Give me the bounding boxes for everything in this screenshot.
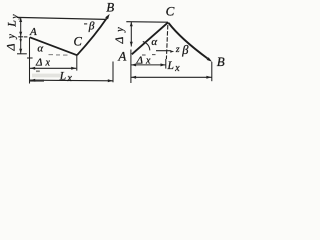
- arrow up to top tick: [19, 18, 22, 22]
- small right arrow before z mark: [170, 50, 174, 53]
- svg-text:Lx: Lx: [167, 60, 181, 74]
- Δx right arrow: [71, 67, 76, 70]
- vertical line below C: [166, 25, 167, 59]
- arrowhead at B: [105, 14, 110, 20]
- horizontal line through C vertical: [156, 50, 171, 52]
- Δx left arrow: [30, 67, 35, 70]
- dashed horizontal reference at A: [49, 54, 68, 56]
- Lx right arrow: [108, 79, 113, 82]
- ink blob: [36, 70, 40, 72]
- alpha arc: [143, 42, 150, 51]
- Lx right arrow: [206, 76, 211, 79]
- arrow up at top: [130, 22, 133, 26]
- svg-text:α: α: [151, 36, 157, 48]
- extension line below A: [130, 50, 132, 84]
- Δx right arrow: [161, 63, 166, 66]
- extension line below A: [29, 37, 31, 83]
- segment AC: [132, 22, 169, 54]
- small tick on A extension: [27, 57, 33, 59]
- tick at A level: [18, 36, 23, 38]
- svg-text:C: C: [166, 4, 175, 19]
- arrow down at bottom: [130, 42, 133, 47]
- extension line below C: [76, 56, 78, 71]
- Δy dimension line (vertical): [130, 22, 132, 47]
- svg-text:B: B: [217, 54, 225, 69]
- svg-text:B: B: [106, 0, 114, 14]
- Lx dimension line: [131, 76, 212, 78]
- bottom tick at C level: [17, 53, 27, 55]
- dash left of beta: [84, 23, 87, 25]
- segment CB: [77, 18, 107, 55]
- Ly/Δy dimension line (left vertical): [20, 18, 22, 54]
- svg-text:β: β: [88, 20, 95, 32]
- segment AC: [30, 37, 77, 55]
- top horizontal line at C level: [126, 21, 167, 24]
- Δx right tick: [165, 59, 167, 69]
- Lx left arrow: [30, 79, 35, 82]
- arrowhead at B: [207, 57, 212, 62]
- small arrow on dimension line: [19, 39, 22, 42]
- extension line below B: [112, 62, 114, 83]
- extension line below B: [211, 62, 213, 81]
- Lx left arrow: [131, 76, 136, 79]
- segment CB: [169, 23, 208, 59]
- Δx left arrow: [131, 63, 136, 66]
- thick worn segment of Lx line: [30, 80, 44, 82]
- Δx dimension line: [30, 67, 76, 69]
- svg-text:C: C: [74, 34, 83, 48]
- paper background: [0, 0, 231, 95]
- dash left of A: [24, 36, 28, 38]
- svg-text:A: A: [29, 26, 37, 38]
- svg-text:z: z: [175, 45, 180, 55]
- Δx dimension line: [131, 64, 166, 66]
- svg-text:A: A: [117, 48, 126, 63]
- Lx dimension line: [30, 79, 113, 82]
- dashed horizontal from A apex: [142, 54, 156, 56]
- svg-text:α: α: [37, 43, 43, 55]
- faint smudge band above Lx line: [32, 74, 62, 78]
- svg-text:Lx: Lx: [59, 70, 73, 84]
- arrow down to bottom tick: [19, 49, 22, 53]
- top reference line B-level: [17, 17, 105, 19]
- svg-text:β: β: [181, 43, 189, 57]
- arrow down to A tick: [19, 32, 22, 37]
